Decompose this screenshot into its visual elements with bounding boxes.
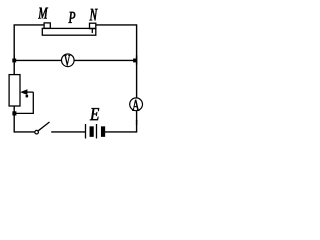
wire slider tap down and left to main wire — [14, 92, 33, 113]
rheostat R body — [9, 75, 20, 106]
wire right vertical lower segment from ammeter — [136, 111, 138, 125]
voltmeter V — [62, 54, 75, 67]
wire left vertical upper segment — [13, 55, 15, 75]
wire from switch to battery — [51, 131, 85, 133]
node junction right of voltmeter branch — [133, 59, 137, 63]
node junction left of voltmeter branch — [12, 59, 16, 63]
node junction of slider tap on main wire — [12, 111, 16, 115]
terminal N clamp square — [90, 23, 96, 28]
slider contact tick below N — [91, 29, 93, 33]
wire left vertical lower segment to bottom-left corner — [14, 106, 35, 132]
voltmeter branch wire left — [14, 59, 62, 61]
label M — [38, 8, 48, 19]
terminal M clamp square — [44, 23, 50, 29]
label N — [90, 9, 98, 21]
rheostat slider arrow — [20, 89, 33, 97]
voltmeter branch wire right — [74, 59, 136, 61]
slide-wire resistor MN body — [42, 28, 96, 35]
wire from battery to bottom-right corner — [105, 120, 137, 132]
wire right vertical upper segment into ammeter — [136, 55, 138, 98]
wire top-left from left corner to terminal M — [14, 25, 44, 65]
switch S — [35, 122, 50, 134]
ammeter A — [130, 98, 143, 111]
label E — [90, 108, 99, 120]
battery E cells — [86, 124, 105, 139]
label P — [69, 12, 76, 23]
wire top-right from terminal N to right corner — [96, 25, 137, 65]
